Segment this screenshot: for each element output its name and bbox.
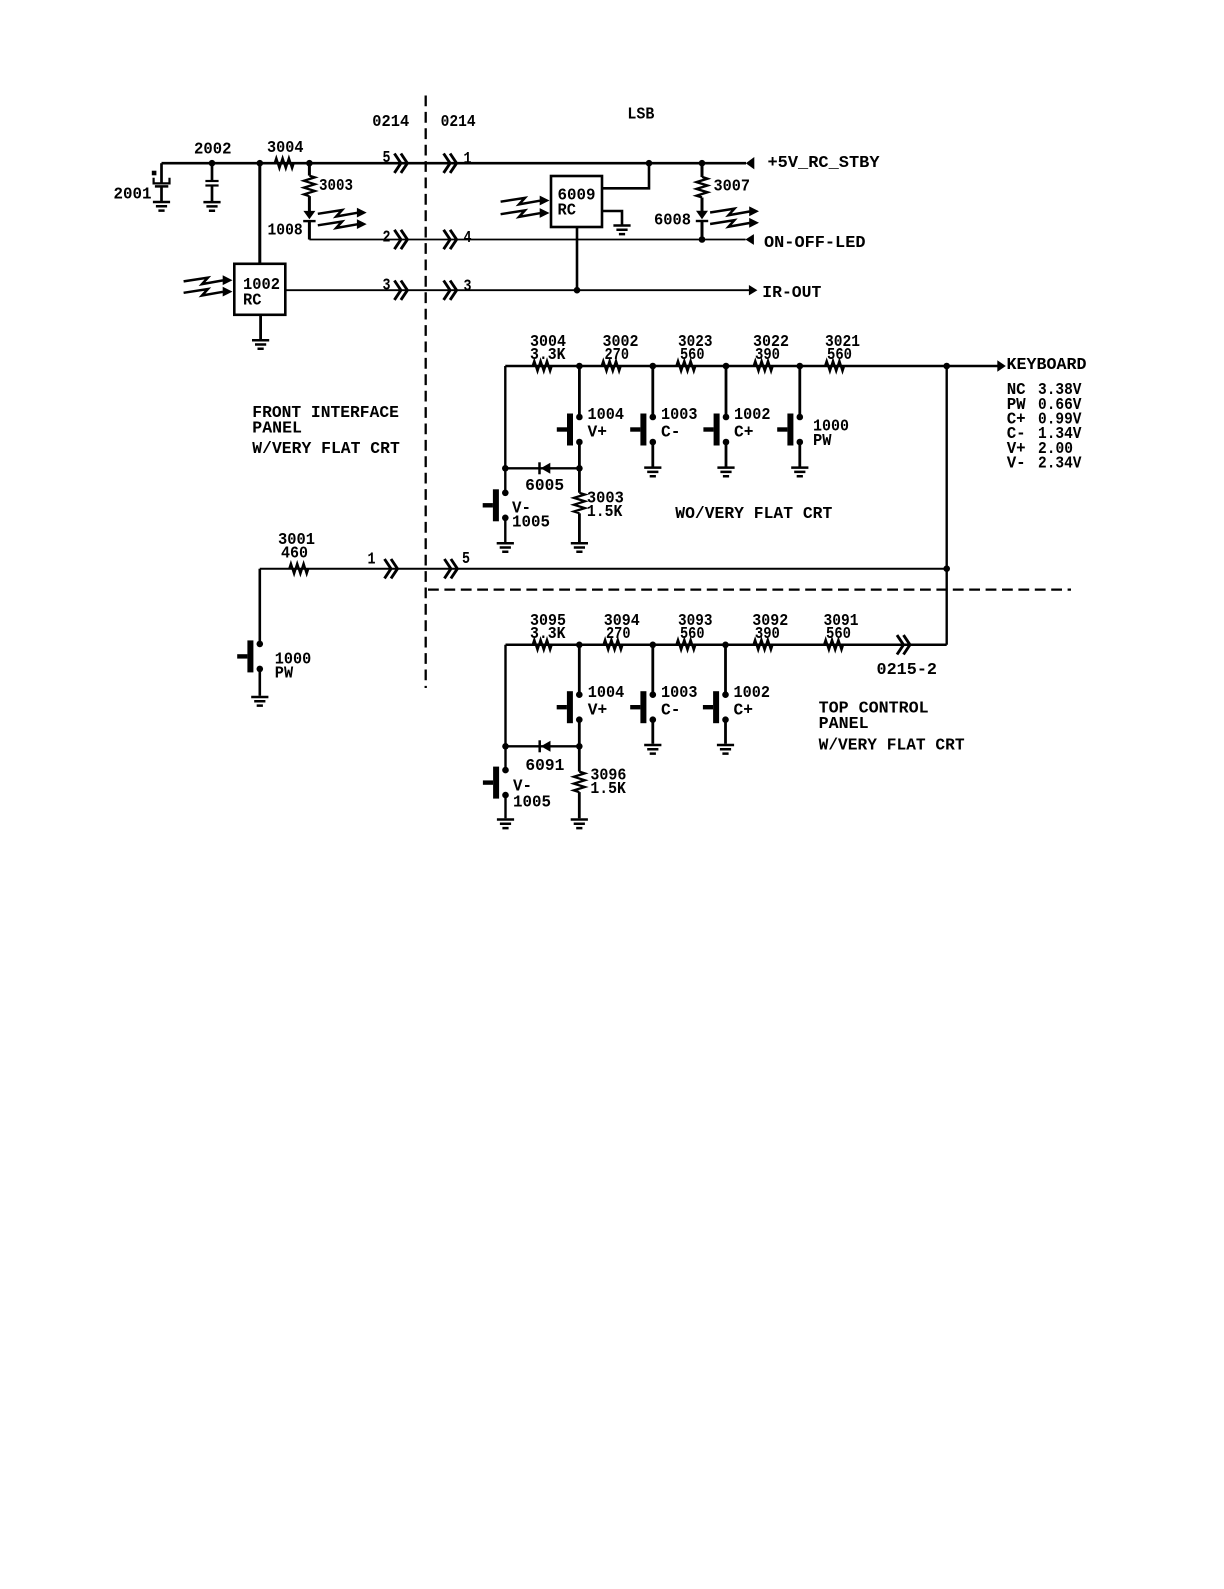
dashed board separator horizontal <box>428 588 1071 590</box>
wire ladder left branch bottom <box>504 645 506 769</box>
node rail keyboard corner <box>943 363 950 370</box>
svg-text:ON-OFF-LED: ON-OFF-LED <box>764 234 866 253</box>
svg-text:2.34V: 2.34V <box>1038 455 1082 474</box>
resistor 3023 560 <box>676 333 712 371</box>
wire IR-OUT (line 3) <box>285 289 749 291</box>
svg-text:560: 560 <box>826 625 851 644</box>
dashed board separator vertical 0214 <box>425 96 427 689</box>
wire 1003 to ground bottom <box>651 720 654 744</box>
connector 0214 pin 1 <box>444 150 472 173</box>
svg-text:5: 5 <box>462 550 470 569</box>
svg-text:LSB: LSB <box>627 105 654 124</box>
connector 0214 pin 2 <box>383 229 408 250</box>
svg-text:1005: 1005 <box>512 513 550 532</box>
wire rail to key 1004 <box>578 366 581 417</box>
key transistor 1000 PW <box>777 414 849 451</box>
wire 1002 to ground <box>725 442 728 467</box>
svg-text:1004: 1004 <box>588 406 625 425</box>
svg-text:V+: V+ <box>588 424 608 443</box>
svg-text:1003: 1003 <box>661 406 698 425</box>
svg-text:2001: 2001 <box>114 186 152 205</box>
svg-text:C-: C- <box>661 424 681 443</box>
wire 1003 to ground <box>651 442 654 467</box>
resistor 3096 1.5K <box>574 746 627 818</box>
key transistor 1003 C- <box>630 406 697 445</box>
connector 0214 pin 3 left <box>383 277 408 300</box>
svg-text:PANEL: PANEL <box>252 420 302 439</box>
wire diode row 6005 <box>505 467 579 469</box>
node 3007 top <box>699 160 706 167</box>
label FRONT INTERFACE PANEL <box>252 404 399 459</box>
resistor 3091 560 <box>824 612 859 650</box>
svg-text:2: 2 <box>383 229 391 248</box>
wire rail to key 1000 <box>798 366 801 417</box>
key transistor 1002 C+ (top control) <box>703 684 770 723</box>
wire 1000 to ground <box>798 442 801 467</box>
resistor 3021 560 <box>825 333 860 371</box>
svg-text:C+: C+ <box>734 702 754 721</box>
svg-text:IR-OUT: IR-OUT <box>762 284 821 303</box>
svg-text:1004: 1004 <box>588 684 625 703</box>
key transistor 1003 C- (top control) <box>630 684 697 723</box>
svg-text:6008: 6008 <box>654 212 691 231</box>
svg-text:3004: 3004 <box>267 139 304 158</box>
node rail PW <box>797 363 804 370</box>
IR receiver 1002 RC <box>234 264 285 315</box>
node diode 6091 left <box>502 743 509 750</box>
wire rail to key 1003 bottom <box>651 645 654 695</box>
ground 1000 key <box>791 468 808 477</box>
ground 1002 bottom <box>717 745 734 754</box>
wire 1004 emitter to node <box>578 442 581 468</box>
resistor 3022 390 <box>753 333 789 371</box>
label TOP CONTROL PANEL <box>819 700 965 756</box>
+5V_RC_STBY flag <box>746 154 880 173</box>
node line5 junction <box>943 565 950 572</box>
connector pin 1 <box>368 551 398 579</box>
resistor 3092 390 <box>752 612 788 650</box>
light rays from 6008 <box>710 206 759 227</box>
resistor 3002 270 <box>602 333 639 371</box>
svg-text:0214: 0214 <box>372 113 409 132</box>
svg-text:1005: 1005 <box>513 794 551 813</box>
svg-text:6091: 6091 <box>525 757 564 776</box>
wire keyboard output <box>947 365 999 367</box>
svg-text:C-: C- <box>661 702 681 721</box>
keyboard voltage table <box>1007 381 1082 474</box>
node 6009 out on IR line <box>574 287 581 294</box>
wire diode row 6091 <box>506 745 580 747</box>
svg-text:+5V_RC_STBY: +5V_RC_STBY <box>768 154 881 173</box>
ground 1000 PW <box>251 697 268 706</box>
svg-text:C+: C+ <box>734 424 754 443</box>
wire down to PW key 1000 <box>258 569 261 645</box>
svg-text:1: 1 <box>368 551 376 570</box>
wire 1005 to ground bottom <box>504 795 506 818</box>
node rail C+ bottom <box>722 642 729 649</box>
capacitor 2002 <box>194 141 232 201</box>
svg-text:560: 560 <box>680 346 705 365</box>
svg-text:WO/VERY FLAT CRT: WO/VERY FLAT CRT <box>675 505 832 524</box>
svg-text:3: 3 <box>464 278 472 297</box>
svg-text:1.5K: 1.5K <box>587 503 623 522</box>
wire ladder left branch <box>504 366 506 492</box>
key transistor 1000 PW (front panel) <box>237 640 311 683</box>
ground 1005 bottom <box>497 820 514 829</box>
IR-OUT flag <box>749 284 821 303</box>
svg-text:3.3K: 3.3K <box>530 346 566 365</box>
wire ON-OFF-LED (line 2) <box>309 239 745 241</box>
svg-text:2002: 2002 <box>194 141 232 160</box>
KEYBOARD flag <box>997 356 1086 375</box>
light rays into 6009 <box>501 196 550 218</box>
wire 1004 emitter to node bottom <box>578 720 581 747</box>
ground 1002 <box>252 340 269 349</box>
node diode 6005 left <box>502 465 509 472</box>
wire 1005 to ground <box>504 518 506 542</box>
node rail V+ <box>576 363 583 370</box>
svg-text:560: 560 <box>680 625 705 644</box>
key transistor 1005 V- (top control) <box>483 767 551 813</box>
diode 6091 <box>525 740 564 776</box>
wire keyboard bus down <box>946 366 948 645</box>
node after 3004 <box>306 160 313 167</box>
svg-text:V+: V+ <box>588 702 608 721</box>
node rail V+ bottom <box>576 642 583 649</box>
connector 0214 pin 3 right <box>444 278 472 300</box>
svg-text:W/VERY FLAT CRT: W/VERY FLAT CRT <box>252 440 399 459</box>
svg-text:560: 560 <box>827 346 852 365</box>
wire 1002 to ground <box>259 315 262 339</box>
resistor 3094 270 <box>604 612 640 650</box>
wire rail to key 1002 bottom <box>724 645 727 695</box>
svg-text:270: 270 <box>606 625 631 644</box>
svg-text:3003: 3003 <box>319 177 353 196</box>
svg-text:270: 270 <box>605 346 630 365</box>
ground 1003 bottom <box>644 745 661 754</box>
key transistor 1004 V+ <box>557 406 624 445</box>
svg-text:4: 4 <box>464 229 472 248</box>
ground 2002 <box>203 202 220 211</box>
key transistor 1004 V+ (top control) <box>557 684 625 723</box>
wire 6009 gnd pin <box>602 211 622 225</box>
LED 6008 <box>654 198 708 240</box>
svg-text:1003: 1003 <box>661 684 698 703</box>
wire rail to key 1004 bottom <box>578 645 581 695</box>
connector 0214 pin 4 <box>444 229 472 249</box>
node diode 6005 right <box>576 465 583 472</box>
connector chevron 0215-2 <box>877 635 938 680</box>
wire line 1/5 <box>260 568 947 570</box>
node rail C- bottom <box>650 642 657 649</box>
node diode 6091 right <box>576 743 583 750</box>
wire down to IR receiver 1002 <box>258 163 261 264</box>
resistor 3007 <box>697 163 751 197</box>
svg-text:1: 1 <box>464 150 472 169</box>
svg-text:PW: PW <box>813 432 832 451</box>
wire top control rail <box>506 644 947 647</box>
svg-text:0214: 0214 <box>441 113 476 132</box>
svg-text:1002: 1002 <box>734 684 771 703</box>
wire 1002 to ground bottom <box>724 720 727 744</box>
svg-text:390: 390 <box>755 625 780 644</box>
svg-text:5: 5 <box>383 149 391 168</box>
svg-text:6005: 6005 <box>525 477 564 496</box>
node 6009 Vcc <box>646 160 653 167</box>
connector 0214 pin 5 <box>383 149 408 173</box>
key transistor 1002 C+ <box>703 406 770 445</box>
svg-text:V-: V- <box>1007 455 1026 474</box>
wire 6009 Vcc pin <box>602 163 649 188</box>
ON-OFF-LED flag <box>745 234 865 253</box>
ground 1002 key <box>717 468 734 477</box>
light rays into 1002 <box>184 275 233 296</box>
ground 3003 <box>571 543 588 552</box>
node junction to IR receiver <box>257 160 264 167</box>
svg-text:PW: PW <box>275 665 294 684</box>
ground 2001 <box>153 202 170 211</box>
svg-text:RC: RC <box>243 292 262 311</box>
svg-text:1.5K: 1.5K <box>590 780 626 799</box>
ground 3096 <box>571 820 588 829</box>
wire +5V_RC_STBY rail <box>162 162 747 165</box>
ground 6009 <box>613 226 630 235</box>
resistor 3004 3.3K <box>530 333 566 371</box>
LED 1008 <box>268 196 316 240</box>
svg-text:KEYBOARD: KEYBOARD <box>1007 356 1087 375</box>
ground 1005 <box>497 543 514 552</box>
key transistor 1005 V- <box>483 489 550 532</box>
svg-text:3: 3 <box>383 277 391 296</box>
resistor 3003 1.5K <box>574 468 624 542</box>
svg-text:0215-2: 0215-2 <box>877 661 938 680</box>
svg-text:460: 460 <box>281 545 308 564</box>
capacitor 2001 <box>114 163 170 204</box>
svg-text:1008: 1008 <box>268 222 303 241</box>
node rail C+ <box>723 363 730 370</box>
svg-text:PANEL: PANEL <box>819 715 869 734</box>
node 6008 on ON-OFF line <box>699 236 706 243</box>
svg-text:3007: 3007 <box>714 178 751 197</box>
resistor 3001 460 <box>278 531 315 574</box>
ground 1003 <box>644 468 661 477</box>
svg-text:3.3K: 3.3K <box>530 625 566 644</box>
svg-text:RC: RC <box>558 202 577 221</box>
light rays from LED 1008 <box>318 208 367 229</box>
wire keyboard ladder rail <box>505 365 946 368</box>
node rail C- <box>650 363 657 370</box>
svg-text:1002: 1002 <box>734 406 771 425</box>
diode 6005 <box>525 462 564 496</box>
resistor 3004 (top) <box>267 139 304 168</box>
wire rail to key 1003 <box>651 366 654 417</box>
IR receiver 6009 RC <box>551 176 602 227</box>
wire 6009 out pin <box>576 227 579 290</box>
connector pin 5 <box>444 550 470 578</box>
svg-text:W/VERY FLAT CRT: W/VERY FLAT CRT <box>819 736 965 755</box>
wire 1000 PW to ground <box>258 669 261 696</box>
resistor 3093 560 <box>676 612 712 650</box>
svg-text:390: 390 <box>755 346 780 365</box>
wire rail to key 1002 <box>725 366 728 417</box>
resistor 3003 (top) <box>304 163 353 196</box>
resistor 3095 3.3K <box>530 612 566 650</box>
